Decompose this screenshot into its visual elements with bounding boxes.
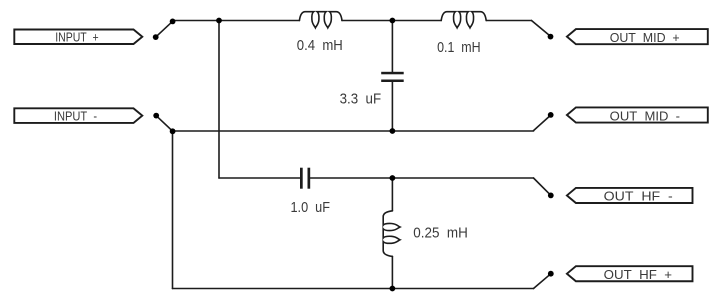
wire top net between L1 and L2: [342, 20, 441, 22]
port flag OUT HF +: [567, 266, 693, 282]
svg-text:OUT MID +: OUT MID +: [610, 30, 680, 45]
wire top net from L2 to OUT MID + switch: [486, 20, 531, 22]
node junction mid net at C1: [390, 128, 396, 134]
svg-text:3.3 uF: 3.3 uF: [340, 90, 382, 107]
node junction bottom net at L3: [390, 286, 396, 292]
node pin OUT MID +: [548, 34, 554, 40]
node junction top net at C1: [390, 18, 396, 24]
inductor 0.1 mH: [441, 12, 486, 28]
capacitor 3.3 uF: [381, 72, 404, 82]
label 0.4 mH: [297, 37, 343, 54]
wire vertical from top net down to HF net: [218, 21, 220, 179]
port flag INPUT -: [14, 108, 142, 123]
wire HF - net horizontal left of C2: [219, 177, 300, 179]
label 0.25 mH: [413, 225, 468, 242]
label 1.0 uF: [291, 199, 331, 216]
port flag OUT MID -: [567, 107, 708, 123]
svg-text:0.25 mH: 0.25 mH: [413, 225, 468, 242]
node pin OUT HF +: [548, 271, 554, 277]
svg-text:INPUT +: INPUT +: [55, 30, 98, 45]
node pin OUT MID -: [548, 112, 554, 118]
label 0.1 mH: [437, 39, 481, 56]
node junction HF net at L3: [390, 175, 396, 181]
wire INPUT - net horizontal: [173, 130, 534, 132]
svg-text:0.1 mH: 0.1 mH: [437, 39, 481, 56]
wire diagonal to OUT MID + pin: [532, 21, 551, 36]
capacitor 3.3 uF wire upper: [391, 21, 393, 72]
node junction top net at vertical branch: [216, 18, 222, 24]
wire diagonal to OUT HF + pin: [534, 274, 551, 288]
svg-text:OUT HF +: OUT HF +: [604, 267, 672, 282]
port flag OUT HF -: [567, 188, 693, 204]
switch blade INPUT +: [157, 22, 172, 36]
capacitor 3.3 uF wire lower: [391, 82, 393, 131]
wire from L3 down to bottom net: [391, 256, 393, 288]
node switch throw INPUT -: [170, 128, 176, 134]
label 3.3 uF: [340, 90, 382, 107]
port flag INPUT +: [14, 30, 142, 45]
svg-text:0.4 mH: 0.4 mH: [297, 37, 343, 54]
wire diagonal to OUT MID - pin: [534, 116, 551, 131]
svg-text:OUT MID -: OUT MID -: [610, 108, 680, 123]
node switch throw INPUT +: [170, 19, 176, 25]
wire diagonal to OUT HF - pin: [534, 178, 551, 195]
node switch pivot INPUT +: [153, 34, 159, 40]
inductor 0.25 mH: [383, 211, 400, 257]
node switch pivot INPUT -: [153, 113, 159, 119]
switch blade INPUT -: [157, 116, 172, 130]
svg-text:OUT HF -: OUT HF -: [604, 189, 673, 204]
wire from HF net down to L3: [391, 178, 393, 211]
wire vertical INPUT - to bottom net: [172, 131, 174, 289]
inductor 0.4 mH: [299, 12, 342, 28]
wire top net from switch to L1: [173, 20, 300, 22]
capacitor 1.0 uF: [300, 168, 310, 189]
svg-text:1.0 uF: 1.0 uF: [291, 199, 331, 216]
node pin OUT HF -: [548, 193, 554, 199]
svg-text:INPUT -: INPUT -: [54, 108, 97, 123]
port flag OUT MID +: [567, 29, 708, 45]
wire HF - net horizontal right of C2: [310, 177, 533, 179]
wire bottom net horizontal: [173, 288, 534, 290]
